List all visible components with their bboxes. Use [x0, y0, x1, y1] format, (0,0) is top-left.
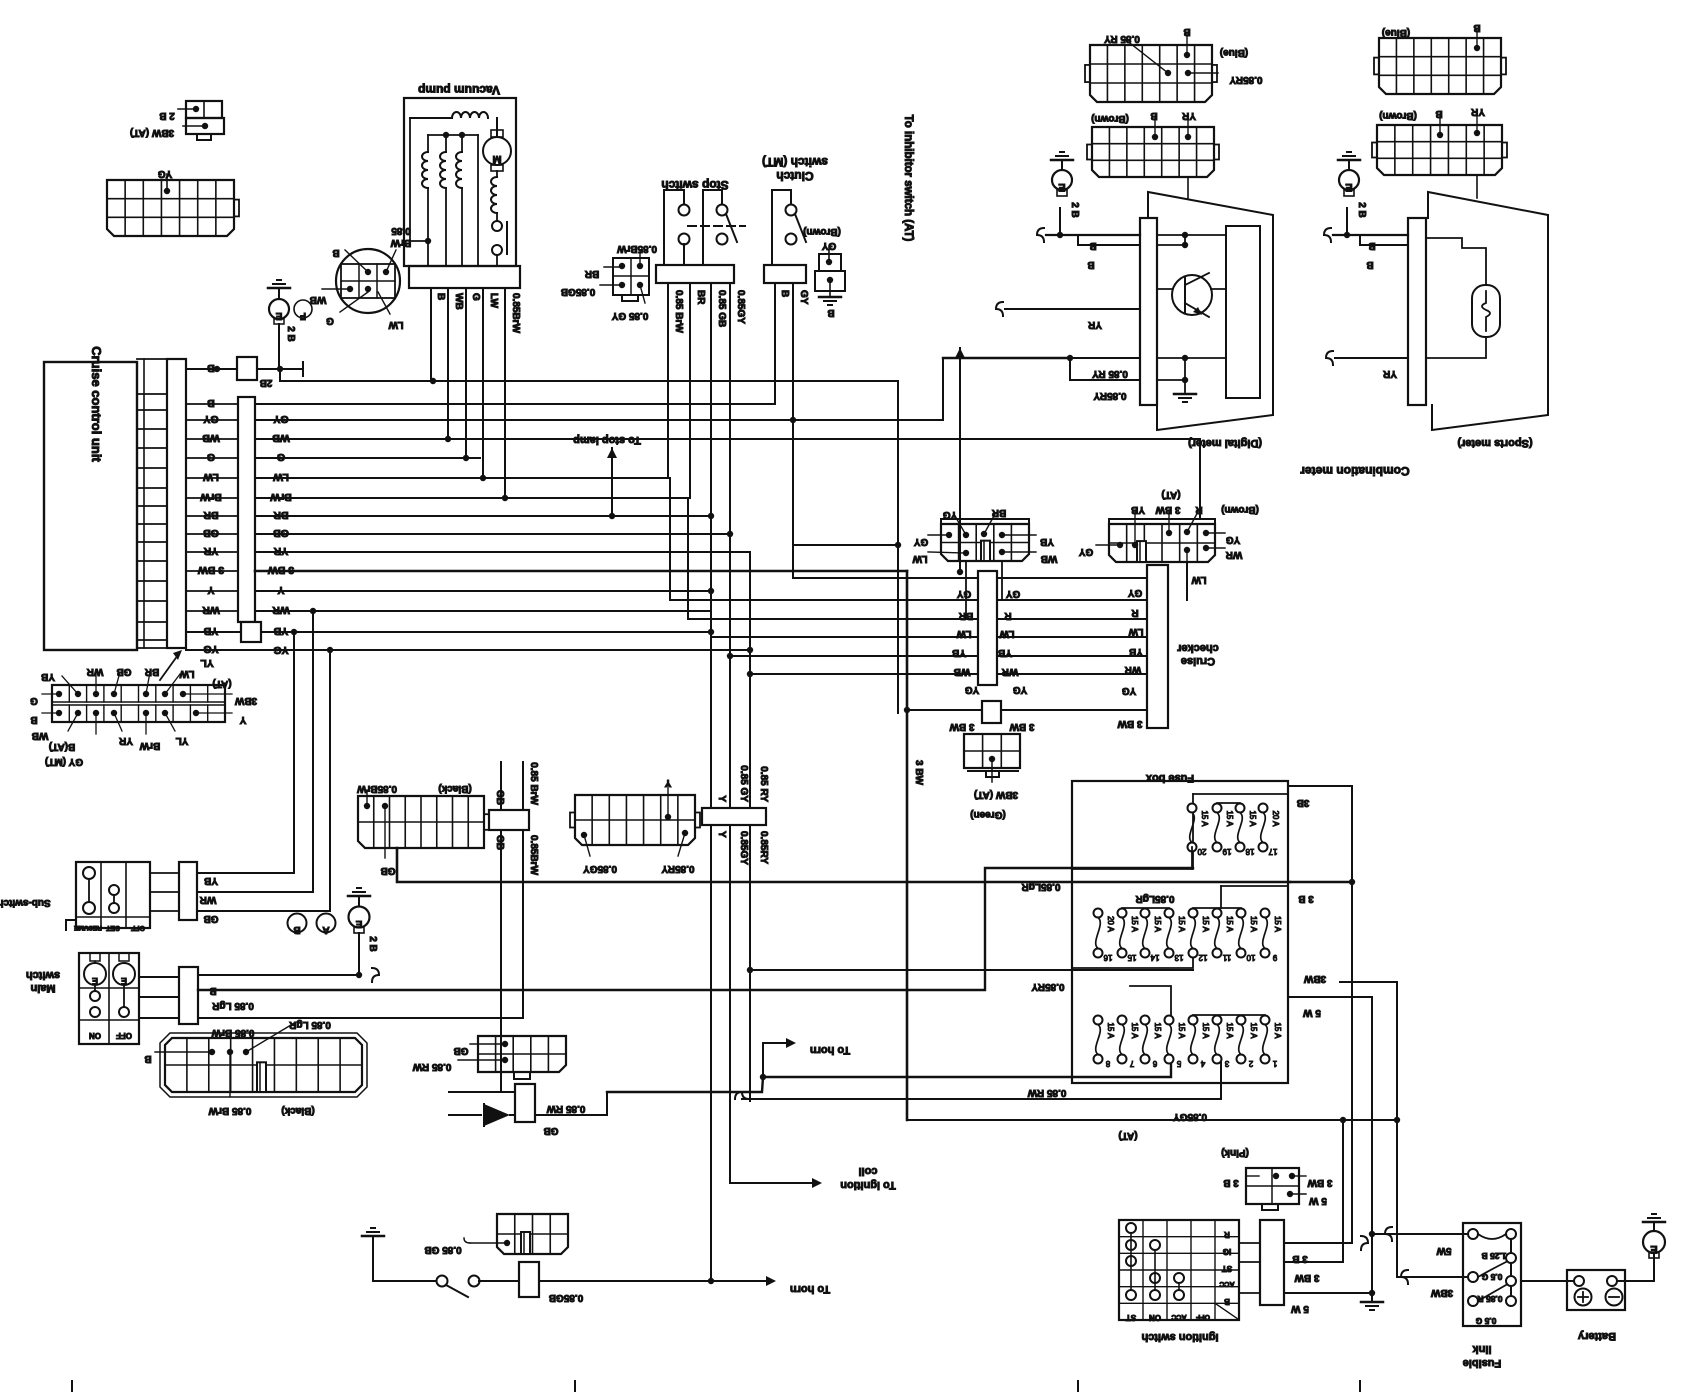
strip pins top — [56, 691, 62, 697]
svg-text:(AT): (AT) — [1161, 489, 1180, 500]
svg-text:12: 12 — [1198, 953, 1207, 962]
svg-text:15 A: 15 A — [1200, 810, 1209, 827]
svg-text:Y: Y — [239, 714, 246, 725]
svg-text:0.85GB: 0.85GB — [561, 286, 595, 297]
svg-text:LW: LW — [1128, 626, 1144, 637]
strip pointer arrow — [160, 655, 178, 680]
checker LW row from BrW elbow — [688, 498, 1147, 619]
sub-switch connector bar — [179, 862, 197, 920]
svg-text:WR: WR — [1225, 549, 1242, 560]
svg-text:B: B — [1087, 259, 1094, 270]
svg-text:YG: YG — [943, 509, 958, 520]
svg-text:WB: WB — [954, 666, 971, 677]
svg-text:YB: YB — [952, 647, 966, 658]
wire Y row — [255, 590, 711, 592]
svg-text:R: R — [1131, 607, 1139, 618]
round connector of vacuum pump — [336, 249, 400, 313]
svg-text:15 A: 15 A — [1201, 916, 1210, 933]
svg-text:3 BW: 3 BW — [1117, 718, 1143, 729]
ignition switch contacts — [1126, 1223, 1136, 1233]
svg-text:LW: LW — [388, 319, 404, 330]
svg-text:GB: GB — [203, 527, 219, 539]
clutch GY wire down to checker — [792, 283, 794, 578]
svg-text:20: 20 — [1197, 847, 1206, 856]
svg-text:BR: BR — [695, 290, 706, 305]
svg-text:18: 18 — [1245, 847, 1254, 856]
svg-text:To ignition: To ignition — [840, 1179, 896, 1191]
svg-text:(Blue): (Blue) — [1382, 27, 1410, 38]
page tick marks — [71, 1381, 73, 1392]
svg-text:(AT): (AT) — [1118, 1130, 1137, 1141]
svg-text:WR: WR — [1124, 664, 1141, 675]
svg-text:0.85 GY: 0.85 GY — [738, 765, 749, 802]
svg-text:0.85 BrW: 0.85 BrW — [673, 290, 684, 333]
wire 3BW row heavy — [255, 570, 907, 573]
svg-text:4: 4 — [1200, 1059, 1205, 1068]
svg-text:LW: LW — [912, 553, 928, 564]
ignition switch table — [1119, 1220, 1239, 1320]
svg-text:15 A: 15 A — [1177, 916, 1186, 933]
digital meter transistor — [1157, 288, 1172, 290]
svg-text:G: G — [30, 695, 38, 706]
svg-text:15 A: 15 A — [1106, 1022, 1115, 1039]
svg-text:E: E — [1345, 181, 1352, 193]
battery box — [1567, 1270, 1625, 1310]
svg-text:YB: YB — [1040, 536, 1054, 547]
svg-text:0.85BrW: 0.85BrW — [510, 293, 521, 334]
svg-text:0.85 RW: 0.85 RW — [1027, 1087, 1066, 1098]
svg-text:Y: Y — [716, 795, 727, 802]
wire to ignition coil — [730, 1182, 806, 1184]
svg-text:R: R — [1195, 504, 1203, 515]
svg-text:0.85 RY: 0.85 RY — [1092, 368, 1128, 379]
svg-text:YG: YG — [1226, 534, 1241, 545]
connector grid 3BW (Green) — [964, 734, 1020, 768]
svg-text:20 A: 20 A — [1271, 810, 1280, 827]
wire B vertical crossing — [897, 381, 899, 713]
svg-text:checker: checker — [1176, 642, 1218, 654]
svg-text:ST: ST — [1222, 1264, 1232, 1273]
connector grid Y 14-pin — [575, 795, 695, 845]
svg-text:15 A: 15 A — [1273, 1022, 1282, 1039]
inline connector bar before checker — [978, 571, 997, 685]
svg-text:F: F — [300, 310, 306, 321]
svg-text:YB: YB — [41, 671, 55, 682]
svg-text:B: B — [30, 714, 37, 725]
wire B row1 — [186, 368, 237, 370]
svg-text:0.5 G: 0.5 G — [1475, 1316, 1496, 1326]
digital meter outline — [1148, 192, 1273, 430]
svg-text:M: M — [492, 153, 501, 165]
heavy 0.85LgR wire — [397, 848, 1290, 882]
svg-text:ON: ON — [89, 1031, 101, 1040]
stop switch pole 1 — [664, 190, 684, 265]
wire 0.85GY to fuse — [735, 1092, 749, 1099]
svg-text:GB: GB — [117, 666, 132, 677]
svg-text:15 A: 15 A — [1177, 1022, 1186, 1039]
svg-text:0.85GB: 0.85GB — [549, 1292, 583, 1303]
svg-text:0.85BrW: 0.85BrW — [616, 243, 657, 254]
svg-text:To horn: To horn — [810, 1044, 850, 1056]
svg-text:SET: SET — [105, 924, 119, 931]
battery ground wire — [1617, 1254, 1654, 1281]
fuse row 3 — [1094, 1016, 1103, 1025]
svg-text:GY: GY — [1078, 546, 1093, 557]
vacuum pump solenoid coils — [427, 135, 429, 152]
svg-text:0.85 LgR: 0.85 LgR — [288, 1019, 330, 1030]
connector grid sports (Blue) — [1379, 38, 1501, 94]
svg-text:LW: LW — [999, 628, 1015, 639]
svg-text:0.85: 0.85 — [391, 225, 411, 236]
svg-text:5W: 5W — [1436, 1245, 1452, 1256]
svg-text:GY: GY — [1127, 587, 1142, 598]
svg-text:10: 10 — [1246, 953, 1255, 962]
wire B from main switch — [198, 974, 361, 976]
wire 5W to fusible link — [1369, 1231, 1375, 1237]
wire to horn lower — [708, 1278, 714, 1284]
svg-text:ON: ON — [1149, 1313, 1161, 1322]
wire 3BW vertical heavy — [906, 571, 909, 1120]
digital meter right B stubs — [1157, 234, 1226, 236]
wire to horn upper — [760, 1074, 766, 1080]
fusible link elements — [1468, 1229, 1478, 1239]
svg-text:3 B: 3 B — [1223, 1177, 1239, 1188]
fuse row 2 — [1094, 909, 1103, 918]
stop switch mounting bar — [656, 265, 734, 283]
wire 3B row2 heavy — [1290, 881, 1352, 883]
svg-text:(Brown): (Brown) — [1221, 504, 1259, 515]
svg-text:YG: YG — [1013, 684, 1028, 695]
svg-text:0.85 RY: 0.85 RY — [758, 766, 769, 802]
digital meter connector bar — [1140, 218, 1157, 405]
svg-text:15 A: 15 A — [1201, 1022, 1210, 1039]
ground with circled E near CCU — [268, 287, 290, 290]
sports meter connector bar — [1408, 218, 1426, 405]
main switch contacts — [94, 961, 96, 963]
svg-text:YB: YB — [998, 647, 1012, 658]
svg-text:switch: switch — [26, 969, 61, 981]
digital meter right stubs lower — [1157, 357, 1226, 359]
connector grid digital (Brown) — [1092, 127, 1214, 177]
svg-text:BR: BR — [584, 268, 599, 279]
connector BR/0.85GB 4-pin — [613, 258, 649, 295]
connector grid GB/0.85RW — [478, 1036, 566, 1072]
svg-text:WB: WB — [1041, 553, 1058, 564]
svg-text:YR: YR — [1181, 110, 1196, 121]
sub-switch box — [76, 862, 150, 928]
svg-text:YB: YB — [204, 875, 218, 886]
svg-text:GB: GB — [454, 1045, 469, 1056]
ground under junction — [1371, 1293, 1373, 1300]
svg-text:link: link — [1472, 1343, 1492, 1355]
svg-text:Vacuum pump: Vacuum pump — [418, 83, 500, 97]
svg-text:0.85 GB: 0.85 GB — [424, 1244, 461, 1255]
wire 3BW horizontal to checker — [907, 709, 1147, 711]
wire YR row elbow — [255, 551, 750, 553]
svg-text:0.85 RW: 0.85 RW — [412, 1061, 451, 1072]
cruise control unit box — [44, 362, 137, 650]
svg-text:17: 17 — [1268, 847, 1277, 856]
svg-text:15 A: 15 A — [1249, 916, 1258, 933]
svg-text:5 W: 5 W — [1303, 1007, 1321, 1018]
ignition wire 3BW — [1284, 1120, 1343, 1262]
connector GY/B small — [819, 254, 841, 271]
circled F — [294, 300, 312, 318]
circled A — [317, 914, 336, 933]
svg-text:WR: WR — [202, 604, 220, 616]
svg-text:YR: YR — [203, 545, 218, 557]
checker YB row from stop GB drop — [711, 636, 1147, 638]
svg-text:Y: Y — [207, 584, 214, 596]
svg-text:Y: Y — [664, 777, 671, 788]
svg-text:5 W: 5 W — [1291, 1303, 1309, 1314]
svg-text:ACC: ACC — [1219, 1280, 1234, 1287]
connector grid digital (Blue) — [1090, 45, 1212, 102]
stop switch pole 2 — [703, 190, 722, 265]
fuse box outline — [1072, 781, 1288, 1083]
wire B long row — [280, 369, 898, 381]
svg-text:GY: GY — [821, 240, 836, 251]
wire 0.85RW heavy — [607, 1058, 1171, 1092]
YG pin label — [164, 188, 170, 194]
stop switch wires down — [667, 283, 669, 478]
to inhibitor switch arrow — [959, 348, 961, 352]
svg-text:3 BW: 3 BW — [198, 564, 224, 576]
fusible link box — [1463, 1223, 1521, 1326]
svg-text:3BW: 3BW — [1430, 1287, 1453, 1298]
svg-text:15 A: 15 A — [1273, 916, 1282, 933]
svg-text:3 BW: 3 BW — [1009, 721, 1035, 732]
sub-switch wires YB/WR/GB — [197, 632, 294, 873]
sports meter B feed — [1333, 234, 1408, 236]
svg-text:(Black): (Black) — [438, 783, 471, 794]
svg-text:E: E — [1650, 1243, 1657, 1255]
svg-text:BR: BR — [203, 509, 219, 521]
svg-text:coil: coil — [859, 1165, 878, 1177]
svg-text:GY: GY — [1005, 588, 1020, 599]
svg-text:GY: GY — [913, 536, 928, 547]
svg-text:0.85 GB: 0.85 GB — [716, 290, 727, 327]
svg-text:15: 15 — [1127, 953, 1136, 962]
svg-text:GB: GB — [381, 865, 396, 876]
svg-text:3BW: 3BW — [234, 695, 257, 706]
svg-text:3BW (AT): 3BW (AT) — [130, 127, 174, 138]
svg-text:YR: YR — [1087, 319, 1102, 330]
svg-text:2 B: 2 B — [367, 936, 378, 952]
wire B row2 to clutch — [255, 283, 775, 404]
svg-text:B: B — [435, 293, 446, 300]
wire 3BW right — [1340, 982, 1397, 1120]
svg-text:Sub-switch: Sub-switch — [0, 897, 51, 908]
svg-text:3 BW: 3 BW — [1155, 504, 1181, 515]
svg-text:B: B — [779, 290, 790, 297]
ignition switch connector bar — [1260, 1220, 1284, 1305]
svg-text:2B: 2B — [260, 377, 273, 388]
svg-text:WB: WB — [310, 294, 327, 305]
svg-text:5 W: 5 W — [1309, 1195, 1327, 1206]
svg-text:0.5 G: 0.5 G — [1481, 1272, 1502, 1282]
wire G row — [255, 457, 480, 459]
clutch switch mounting bar — [764, 265, 806, 283]
wire BrW row elbow — [255, 497, 688, 499]
svg-text:RESUME: RESUME — [73, 924, 101, 931]
svg-text:BrW: BrW — [200, 491, 222, 503]
sports meter lamp wires — [1426, 238, 1486, 285]
vacuum pump top coil — [410, 117, 452, 119]
connector grid 0.85GB — [497, 1214, 568, 1254]
wire 0.85RY drop — [749, 552, 751, 1101]
checker R row from LW elbow — [670, 478, 1147, 600]
svg-text:0.85 BrW: 0.85 BrW — [528, 762, 539, 805]
svg-text:Cruise control unit: Cruise control unit — [89, 346, 104, 462]
svg-text:YG: YG — [158, 168, 173, 179]
svg-text:15 A: 15 A — [1249, 1022, 1258, 1039]
connector 2B/3BW(AT) — [186, 101, 222, 118]
wire YG row — [186, 649, 750, 651]
connector label cells column 1 — [186, 368, 237, 370]
svg-text:Combination meter: Combination meter — [1300, 464, 1410, 478]
svg-text:Battery: Battery — [1577, 1330, 1616, 1342]
svg-text:7: 7 — [1129, 1059, 1134, 1068]
wire GB row — [255, 533, 730, 535]
svg-text:13: 13 — [1174, 953, 1183, 962]
svg-text:15 A: 15 A — [1130, 916, 1139, 933]
svg-text:1: 1 — [1272, 1059, 1277, 1068]
svg-text:WR: WR — [1001, 666, 1018, 677]
svg-text:OFF: OFF — [130, 924, 145, 931]
svg-text:(Black): (Black) — [281, 1105, 314, 1116]
diode — [449, 1091, 515, 1093]
svg-text:15 A: 15 A — [1225, 810, 1234, 827]
checker R row wire from C2 — [1186, 562, 1188, 600]
sub-switch contacts — [83, 867, 95, 879]
svg-text:To horn: To horn — [790, 1283, 830, 1295]
svg-text:Y: Y — [716, 831, 727, 838]
connector (Black) 16-pin mid — [358, 796, 484, 848]
svg-text:YR: YR — [118, 735, 133, 746]
svg-text:8: 8 — [1105, 1059, 1110, 1068]
wire WR row — [255, 610, 711, 612]
diode inline connector — [515, 1084, 535, 1122]
svg-text:14: 14 — [1150, 953, 1159, 962]
svg-text:B: B — [293, 924, 300, 935]
svg-text:0.85RY: 0.85RY — [1229, 74, 1262, 85]
svg-text:GY (MT): GY (MT) — [45, 756, 83, 767]
svg-text:3 BW: 3 BW — [1307, 1177, 1333, 1188]
svg-text:B: B — [1183, 26, 1190, 37]
svg-text:B: B — [1366, 259, 1373, 270]
svg-text:LW: LW — [956, 628, 972, 639]
vacuum pump box — [404, 98, 516, 266]
svg-text:LW: LW — [488, 293, 499, 309]
connector square on YB wire — [241, 622, 261, 642]
svg-text:G: G — [470, 293, 481, 301]
svg-text:YB: YB — [1129, 646, 1143, 657]
svg-text:B(AT): B(AT) — [49, 741, 75, 752]
svg-text:G: G — [326, 315, 334, 326]
svg-text:WR: WR — [86, 666, 103, 677]
svg-text:BR: BR — [144, 666, 159, 677]
svg-text:0.85 RW: 0.85 RW — [546, 1103, 585, 1114]
svg-text:3 BW: 3 BW — [949, 721, 975, 732]
svg-text:0.85 GY: 0.85 GY — [611, 310, 648, 321]
connector grid sports (Brown) — [1377, 125, 1502, 175]
wire 3BW to fusible link — [1397, 1276, 1468, 1278]
wire GY row — [255, 419, 943, 421]
svg-text:YB: YB — [1131, 504, 1145, 515]
svg-text:(Digital meter): (Digital meter) — [1188, 437, 1262, 449]
svg-text:E: E — [1058, 181, 1065, 193]
svg-text:3BW: 3BW — [1303, 973, 1326, 984]
svg-text:OFF: OFF — [1195, 1313, 1210, 1320]
connector C1 GY/YG/BR/YB — [941, 524, 1029, 561]
svg-text:G: G — [207, 451, 215, 463]
svg-text:3 B: 3 B — [1298, 893, 1314, 904]
connector C2 YB/3BW/R — [1109, 524, 1215, 562]
svg-text:2 B: 2 B — [159, 110, 175, 121]
svg-text:B: B — [1435, 108, 1442, 119]
svg-text:LW: LW — [179, 668, 195, 679]
svg-text:0.85RY: 0.85RY — [1031, 981, 1064, 992]
(Black) connector labels — [209, 1049, 215, 1055]
strip labels — [42, 693, 59, 695]
svg-text:(Sports meter): (Sports meter) — [1457, 437, 1533, 449]
connector square on 3BW wire — [982, 701, 1001, 723]
svg-text:B: B — [827, 307, 834, 318]
svg-text:3BW (AT): 3BW (AT) — [974, 789, 1018, 800]
inline connector on horn wire — [519, 1262, 539, 1297]
svg-text:GB: GB — [544, 1125, 559, 1136]
svg-text:15 A: 15 A — [1248, 810, 1257, 827]
main switch box — [79, 953, 139, 1044]
connector (Pink) — [1246, 1168, 1299, 1204]
sports meter lamp — [1472, 285, 1500, 337]
svg-text:(AT): (AT) — [212, 678, 231, 689]
svg-text:2 B: 2 B — [285, 326, 296, 342]
inline connector GB — [500, 762, 502, 810]
svg-text:IG: IG — [1223, 1247, 1231, 1256]
svg-text:switch (MT): switch (MT) — [762, 155, 828, 169]
svg-text:2 B: 2 B — [1356, 202, 1367, 218]
svg-text:5: 5 — [1176, 1059, 1181, 1068]
fuse box inner partitions — [1193, 793, 1288, 795]
svg-text:GY: GY — [798, 290, 809, 305]
cruise control unit connector bar 2 — [238, 397, 255, 622]
connector (Black) 18-pin — [165, 1038, 362, 1092]
svg-text:B: B — [1089, 240, 1096, 251]
checker GY row — [793, 577, 1147, 579]
svg-text:B: B — [332, 247, 339, 258]
fuse row 1 — [1188, 804, 1197, 813]
vacuum pump contact points — [496, 213, 498, 221]
svg-text:To inhibitor switch (AT): To inhibitor switch (AT) — [902, 115, 914, 242]
svg-text:LW: LW — [203, 471, 219, 483]
svg-text:16: 16 — [1103, 953, 1112, 962]
svg-text:YR: YR — [1382, 368, 1397, 379]
vacuum pump output wires — [430, 288, 432, 381]
ground bottom left — [362, 1235, 384, 1238]
svg-text:1.25 B: 1.25 B — [1481, 1251, 1506, 1261]
sports meter outline — [1428, 192, 1548, 430]
svg-text:B: B — [144, 1053, 151, 1064]
cruise checker bar — [1147, 565, 1168, 728]
svg-text:GB: GB — [494, 835, 505, 850]
svg-text:0.85BrW: 0.85BrW — [528, 835, 539, 876]
svg-text:0.85GY: 0.85GY — [735, 290, 746, 324]
svg-text:0.85 LgR: 0.85 LgR — [211, 1000, 253, 1011]
svg-text:Cruise: Cruise — [1181, 655, 1215, 667]
wire fusible to battery — [1521, 1280, 1574, 1282]
